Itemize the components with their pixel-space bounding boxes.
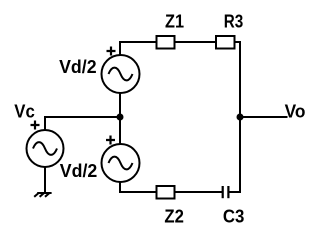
svg-text:Vo: Vo bbox=[285, 101, 306, 121]
wire between sources through node A bbox=[119, 93, 121, 144]
resistor Z1 bbox=[157, 36, 175, 49]
node A junction dot bbox=[117, 114, 124, 121]
capacitor C3 bbox=[223, 186, 229, 198]
resistor R3 bbox=[216, 36, 235, 49]
wire Vc bottom lead to ground bbox=[44, 167, 46, 193]
wire bottom source bottom lead to Z2 bbox=[120, 182, 156, 192]
wire Vo lead bbox=[240, 116, 288, 118]
svg-text:Z2: Z2 bbox=[164, 206, 184, 226]
wire Z1 to R3 bbox=[175, 41, 216, 43]
wire Z2 to C3 bbox=[175, 191, 223, 193]
resistor Z2 bbox=[157, 186, 175, 199]
source V2 Vd/2 bottom bbox=[102, 136, 140, 183]
wire Vc top lead to node A bbox=[45, 117, 120, 130]
wire R3 right down to C3 bbox=[229, 42, 241, 192]
svg-text:Z1: Z1 bbox=[165, 11, 184, 31]
svg-text:Vd/2: Vd/2 bbox=[60, 161, 98, 181]
wire top source top lead bbox=[120, 42, 156, 55]
svg-text:R3: R3 bbox=[224, 11, 244, 31]
ground bbox=[34, 193, 51, 197]
node Vo junction dot bbox=[237, 114, 244, 121]
source V1 Vd/2 top bbox=[102, 47, 140, 94]
svg-text:Vc: Vc bbox=[14, 101, 35, 121]
svg-text:Vd/2: Vd/2 bbox=[59, 57, 97, 77]
svg-text:C3: C3 bbox=[223, 206, 245, 226]
source Vc bbox=[27, 121, 64, 168]
